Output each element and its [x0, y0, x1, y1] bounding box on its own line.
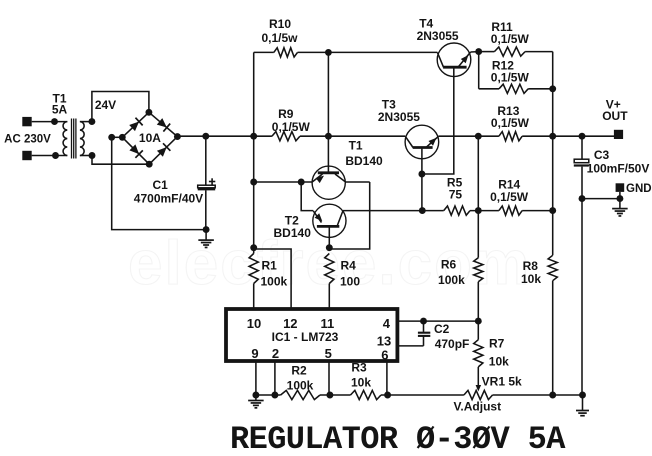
svg-text:11: 11 — [321, 316, 335, 331]
svg-text:0,1/5W: 0,1/5W — [491, 71, 530, 85]
svg-text:VR1 5k: VR1 5k — [482, 375, 522, 389]
svg-text:R3: R3 — [351, 361, 367, 375]
svg-text:5A: 5A — [52, 103, 68, 117]
svg-text:100k: 100k — [287, 379, 314, 393]
svg-text:10k: 10k — [521, 272, 541, 286]
svg-text:10A: 10A — [139, 131, 161, 145]
svg-text:100: 100 — [340, 274, 360, 288]
svg-text:V.Adjust: V.Adjust — [454, 399, 502, 413]
svg-text:C2: C2 — [434, 322, 450, 336]
svg-text:IC1 - LM723: IC1 - LM723 — [272, 330, 339, 344]
svg-text:R9: R9 — [278, 107, 294, 121]
svg-text:0,1/5W: 0,1/5W — [272, 120, 311, 134]
svg-text:AC 230V: AC 230V — [4, 134, 51, 146]
svg-text:13: 13 — [377, 333, 391, 348]
svg-text:4700mF/40V: 4700mF/40V — [134, 191, 203, 205]
svg-text:R2: R2 — [291, 363, 307, 377]
svg-text:C3: C3 — [594, 148, 610, 162]
svg-text:24V: 24V — [95, 98, 116, 112]
svg-text:GND: GND — [626, 183, 652, 195]
svg-text:R10: R10 — [269, 17, 291, 31]
svg-text:10k: 10k — [351, 375, 371, 389]
svg-text:0,1/5W: 0,1/5W — [491, 32, 530, 46]
svg-text:0,1/5W: 0,1/5W — [490, 190, 529, 204]
svg-text:5: 5 — [325, 346, 332, 361]
svg-text:0,1/5w: 0,1/5w — [261, 31, 298, 45]
svg-text:9: 9 — [251, 346, 258, 361]
svg-text:T1: T1 — [349, 138, 363, 152]
svg-text:6: 6 — [381, 348, 388, 363]
svg-text:0,1/5W: 0,1/5W — [491, 116, 530, 130]
svg-text:100k: 100k — [438, 273, 465, 287]
svg-text:75: 75 — [449, 187, 463, 201]
svg-text:100k: 100k — [261, 274, 288, 288]
svg-text:4: 4 — [383, 316, 391, 331]
svg-text:12: 12 — [283, 316, 297, 331]
svg-text:BD140: BD140 — [274, 226, 312, 240]
svg-text:R4: R4 — [341, 259, 357, 273]
svg-text:2N3055: 2N3055 — [378, 110, 420, 124]
svg-text:10k: 10k — [489, 355, 509, 369]
svg-text:2: 2 — [272, 346, 279, 361]
svg-text:BD140: BD140 — [345, 154, 383, 168]
svg-text:2N3055: 2N3055 — [417, 29, 459, 43]
svg-text:R8: R8 — [523, 259, 539, 273]
svg-text:OUT: OUT — [602, 109, 628, 123]
svg-text:R7: R7 — [489, 336, 505, 350]
svg-text:REGULATOR Ø-3ØV 5A: REGULATOR Ø-3ØV 5A — [230, 421, 566, 456]
svg-text:10: 10 — [247, 316, 261, 331]
svg-text:R6: R6 — [441, 258, 457, 272]
svg-text:R1: R1 — [262, 259, 278, 273]
svg-text:100mF/50V: 100mF/50V — [587, 162, 650, 176]
svg-text:C1: C1 — [153, 178, 169, 192]
svg-text:470pF: 470pF — [435, 337, 470, 351]
